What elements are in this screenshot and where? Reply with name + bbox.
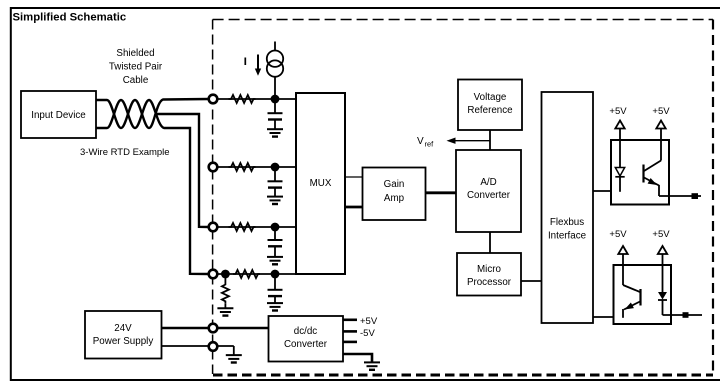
svg-text:Amp: Amp: [384, 193, 405, 204]
svg-text:Converter: Converter: [467, 190, 511, 201]
svg-text:Flexbus: Flexbus: [550, 217, 584, 228]
svg-text:MUX: MUX: [310, 178, 332, 189]
svg-text:ref: ref: [425, 140, 435, 149]
svg-text:24V: 24V: [114, 323, 132, 334]
svg-text:Converter: Converter: [284, 339, 328, 350]
svg-text:Simplified Schematic: Simplified Schematic: [13, 12, 127, 24]
svg-text:Cable: Cable: [123, 75, 149, 86]
svg-text:Twisted Pair: Twisted Pair: [109, 62, 163, 73]
svg-text:Input Device: Input Device: [31, 110, 86, 121]
svg-text:-5V: -5V: [360, 328, 375, 339]
svg-text:dc/dc: dc/dc: [294, 326, 318, 337]
svg-text:Reference: Reference: [467, 105, 513, 116]
svg-text:+5V: +5V: [652, 106, 670, 117]
svg-text:+5V: +5V: [609, 229, 627, 240]
svg-text:+5V: +5V: [360, 316, 378, 327]
svg-text:Shielded: Shielded: [116, 48, 154, 59]
svg-text:Gain: Gain: [384, 179, 405, 190]
svg-text:+5V: +5V: [652, 229, 670, 240]
svg-text:V: V: [417, 136, 424, 147]
svg-text:Voltage: Voltage: [474, 92, 507, 103]
svg-text:Processor: Processor: [467, 277, 512, 288]
svg-text:3-Wire RTD Example: 3-Wire RTD Example: [80, 147, 170, 158]
svg-text:+5V: +5V: [609, 106, 627, 117]
svg-text:A/D: A/D: [480, 177, 496, 188]
svg-text:Power Supply: Power Supply: [93, 336, 154, 347]
svg-text:Micro: Micro: [477, 264, 501, 275]
svg-text:Interface: Interface: [548, 231, 587, 242]
